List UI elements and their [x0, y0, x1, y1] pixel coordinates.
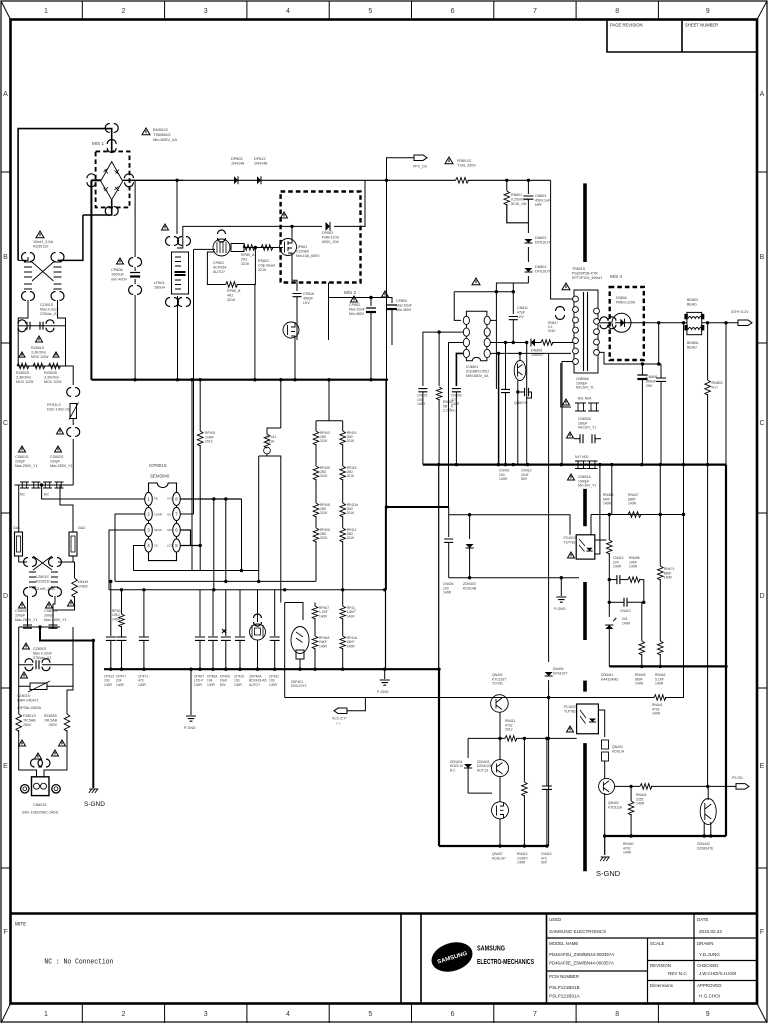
svg-text:DATE: DATE — [697, 917, 708, 922]
row tick lines left and right — [1, 172, 767, 868]
svg-text:PCM NUMBER: PCM NUMBER — [549, 974, 579, 979]
common-mode choke LZ801S — [33, 556, 52, 570]
labels RZ802S RZ803S — [19, 352, 25, 357]
cap bank rail caps left — [110, 582, 112, 636]
svg-text:M/S 1: M/S 1 — [92, 141, 104, 146]
svg-text:N01 N0A: N01 N0A — [578, 397, 592, 401]
svg-text:VCC: VCC — [167, 497, 173, 501]
vertical rails fb — [611, 465, 613, 515]
svg-text:E: E — [760, 763, 765, 770]
connector VCC_IC_P — [347, 698, 365, 711]
svg-text:6: 6 — [451, 1011, 455, 1018]
zener ZDP401 — [285, 603, 303, 621]
secondary snubber Y-caps cluster — [561, 363, 571, 407]
svg-text:ZDN403KDS14B: ZDN403KDS14B — [463, 582, 477, 590]
resistor RP402 — [120, 588, 123, 591]
transformer TR801S body — [574, 290, 598, 373]
svg-text:M/S 4: M/S 4 — [610, 274, 622, 279]
resistor RP411 — [280, 380, 282, 428]
svg-text:REVISION: REVISION — [650, 963, 671, 968]
thick primary negative rail from bridge — [90, 180, 92, 379]
primary gnd bus bottom thick — [104, 668, 439, 670]
svg-text:2: 2 — [122, 1011, 126, 1018]
svg-text:9: 9 — [706, 1011, 710, 1018]
svg-text:E: E — [3, 763, 8, 770]
thermistor RTH1LS — [70, 404, 77, 419]
wire gaps to choke — [19, 556, 27, 562]
IC ICP801S body — [149, 483, 177, 561]
svg-text:8: 8 — [615, 8, 619, 15]
wire pin5 to snubber rail — [490, 352, 571, 354]
svg-text:NC: NC — [44, 493, 49, 497]
samsung logo ellipse — [428, 937, 476, 976]
feedback box bottom wire — [449, 577, 579, 579]
bridge BD801S diamond with diodes — [101, 162, 123, 200]
wire choke bottom to divider box — [18, 300, 28, 326]
cap bank caps main — [199, 590, 201, 636]
output junction dots — [657, 321, 660, 324]
label ICN801 — [472, 278, 480, 285]
capacitor CN803 — [527, 179, 530, 182]
svg-text:CN413: CN413 — [620, 609, 631, 613]
main ground bus y464 thick — [423, 464, 726, 466]
thick wire to S-GND — [40, 627, 93, 641]
spark gap GA1 — [15, 532, 23, 556]
resistor RN802 NC — [705, 380, 711, 395]
divider chain left — [315, 421, 317, 431]
svg-text:3: 3 — [204, 1011, 208, 1018]
sense resistor RN801 — [505, 179, 508, 182]
diode DP812 — [257, 176, 261, 184]
AC inlet connector CN801S — [31, 759, 43, 767]
wire transformer low pin to caps — [600, 352, 662, 364]
polarity mark CP409 — [222, 629, 226, 633]
IC ICN801 pins left — [463, 316, 469, 324]
svg-text:Dimensions: Dimensions — [650, 983, 674, 988]
svg-text:D: D — [3, 593, 8, 600]
wire pfc node thick segment — [385, 380, 387, 507]
svg-text:PC401STLP781: PC401STLP781 — [564, 536, 577, 544]
wire ICN801 top rail — [454, 291, 496, 293]
svg-text:J.W.CHOI/S.H.KIM: J.W.CHOI/S.H.KIM — [699, 971, 736, 976]
bottom sgnd bus thick — [605, 835, 726, 837]
diode DN803 — [527, 223, 529, 233]
svg-text:CS: CS — [154, 544, 158, 548]
capacitor CN403 473 — [452, 389, 461, 392]
capacitor CN807b — [660, 364, 662, 378]
transistor QN801 driver — [514, 361, 526, 381]
wire transformer pin7 down — [562, 362, 574, 465]
diode DP802 — [234, 176, 238, 184]
svg-text:A: A — [3, 91, 8, 98]
svg-text:1: 1 — [44, 8, 48, 15]
bus corner down right — [725, 465, 727, 836]
capacitor CP810 — [27, 322, 30, 330]
svg-text:SAMSUNG: SAMSUNG — [477, 946, 505, 953]
arc transformer pin — [556, 307, 565, 320]
opto coupler PC401S — [576, 535, 595, 559]
boost inductor LF801 — [172, 252, 189, 294]
ferrite bead BD803 — [687, 312, 702, 334]
svg-text:DP8121N4148: DP8121N4148 — [254, 157, 267, 166]
diode-resistor pair QN404 — [602, 740, 609, 749]
svg-text:2: 2 — [122, 8, 126, 15]
svg-text:ELECTRO-MECHANICS: ELECTRO-MECHANICS — [477, 959, 534, 966]
resistor RP401 — [199, 380, 201, 431]
series cap resistor row — [608, 578, 611, 581]
crystal ZP40A — [257, 590, 259, 622]
wire outputs to secondary bus — [658, 323, 660, 364]
title block outline — [11, 912, 758, 915]
svg-text:VCC IC P: VCC IC P — [332, 717, 347, 721]
connector ATHY 5.2V — [738, 320, 752, 326]
vertical RN802 line lower — [707, 465, 709, 787]
svg-text:CN801S: CN801S — [33, 803, 47, 807]
svg-text:PC402STLP781: PC402STLP781 — [564, 705, 577, 713]
ground P-GND opto — [560, 578, 562, 596]
svg-text:NC: NC — [20, 493, 25, 497]
svg-text:B: B — [760, 254, 765, 261]
node arc bridge top — [105, 124, 118, 133]
svg-text:3: 3 — [204, 8, 208, 15]
svg-text:ATHY 5.2V: ATHY 5.2V — [731, 310, 749, 314]
vertical rails under bus — [191, 380, 193, 571]
svg-text:PD46AF0E_ZSM/BN44-00035?A: PD46AF0E_ZSM/BN44-00035?A — [549, 961, 614, 966]
svg-text:2010.02.22: 2010.02.22 — [699, 929, 722, 934]
svg-text:9: 9 — [706, 8, 710, 15]
svg-text:GA2: GA2 — [78, 526, 85, 530]
zener ZDN404 — [467, 738, 469, 758]
capacitor CN807 — [501, 389, 510, 392]
svg-text:PD46AF0U_ZSM/BN44-00035?A: PD46AF0U_ZSM/BN44-00035?A — [549, 952, 614, 957]
svg-text:USED: USED — [549, 917, 561, 922]
thick corner to bottom — [437, 668, 440, 671]
svg-text:6: 6 — [451, 8, 455, 15]
warning triangle bridge — [142, 128, 150, 135]
divider chain right — [342, 421, 344, 431]
resistor RN440 — [630, 786, 632, 801]
wire rp411 row — [267, 454, 281, 603]
resistor RS821 — [261, 245, 273, 251]
resistor RN411 — [468, 737, 505, 739]
current transformer CT801 — [194, 248, 216, 250]
labels CS803S CS804S — [19, 602, 26, 608]
secondary gnd bus lower thick — [609, 665, 726, 667]
transformer TR801S label — [562, 283, 570, 290]
capacitor CN404 — [444, 539, 453, 542]
wire qn402 collector row — [614, 785, 640, 787]
transistor QN405 — [468, 792, 492, 794]
svg-text:SENS: SENS — [154, 528, 162, 532]
svg-text:5: 5 — [368, 1011, 372, 1018]
TL431 ZDN411 — [608, 602, 610, 617]
svg-text:C: C — [759, 420, 764, 427]
svg-text:GND: GND — [167, 528, 173, 532]
labels CS801S CS802S — [19, 446, 26, 452]
wires ICP801S left pins — [115, 514, 145, 581]
feedback box wires — [448, 507, 450, 537]
resistor RZ801S — [17, 363, 29, 369]
svg-text:MODEL NAME: MODEL NAME — [549, 941, 578, 946]
electrolytic cap CP802 — [370, 298, 372, 307]
svg-text:F: F — [3, 929, 7, 936]
svg-text:REV N.C: REV N.C — [668, 971, 687, 976]
svg-text:4: 4 — [286, 8, 290, 15]
svg-text:CHECKED: CHECKED — [697, 963, 718, 968]
wire cp816 to bus — [296, 297, 298, 340]
svg-text:BD803BEAD: BD803BEAD — [687, 298, 698, 307]
Y-cap row 3 on bus — [578, 461, 584, 469]
resistor RN441 wire — [285, 697, 654, 699]
svg-text:ICP801S: ICP801S — [149, 463, 167, 468]
junction dot cap row — [40, 483, 43, 486]
wire transformer top pin — [551, 290, 573, 299]
inductor LF802 160uH — [73, 562, 75, 578]
resistor RN407 in fb wire — [628, 512, 641, 518]
svg-text:H.G.CHOI: H.G.CHOI — [699, 994, 720, 999]
svg-text:FB: FB — [154, 497, 158, 501]
isolation bar segments — [583, 183, 587, 262]
svg-text:8: 8 — [615, 1011, 619, 1018]
safety capacitor row CS801S — [15, 484, 74, 486]
label RZ801S — [36, 336, 43, 342]
svg-text:P-GND: P-GND — [377, 690, 389, 694]
svg-text:DP8021N4148: DP8021N4148 — [231, 157, 244, 166]
connector PFC_DC — [387, 158, 415, 181]
wire boost diode out — [334, 180, 365, 226]
svg-text:NC : No Connection: NC : No Connection — [44, 959, 113, 967]
transistor QN402 — [599, 778, 615, 794]
varistor VZ801S — [19, 665, 30, 687]
dual diode ZDN442 — [707, 786, 709, 800]
wire output to gnd corner — [724, 321, 727, 324]
svg-text:11mH_2.5A: 11mH_2.5A — [36, 587, 55, 591]
svg-text:S-GND: S-GND — [84, 801, 105, 808]
MOSFET QP801 — [280, 239, 297, 256]
diode DN80A in circle — [612, 313, 631, 332]
ground S-GND left — [89, 789, 99, 793]
svg-text:B: B — [3, 254, 8, 261]
svg-text:A: A — [760, 91, 765, 98]
wire thermistor down — [72, 419, 74, 426]
transformer primary winding bumps — [573, 296, 579, 302]
wire bridge right output — [123, 179, 183, 181]
capacitor CN808 horizontal — [516, 390, 519, 393]
svg-text:P-GND: P-GND — [554, 607, 566, 611]
main primary ground bus thick — [91, 379, 388, 381]
svg-text:? ?: ? ? — [336, 722, 341, 726]
capacitor CN410 — [545, 737, 548, 740]
boost inductor LF801 wires — [176, 180, 178, 234]
svg-text:QN80?A: QN80?A — [514, 401, 528, 405]
spark gap GA2 — [69, 532, 77, 556]
resistor RP801A — [243, 245, 255, 251]
resistor RN806 — [535, 342, 541, 344]
wire opto right pins — [595, 539, 607, 541]
svg-text:DRAWN: DRAWN — [697, 941, 713, 946]
svg-text:NOTE: NOTE — [15, 922, 26, 928]
Y-capacitor row CS803S CS804S — [19, 626, 60, 628]
capacitor CP816 — [293, 294, 302, 297]
wire AC top loop — [18, 129, 112, 261]
X-capacitor CZ801S — [23, 643, 30, 649]
ground P-GND cap bank — [190, 669, 192, 715]
fuse FR801S — [456, 178, 469, 184]
transistor QN401 — [491, 695, 509, 713]
wire qn401 emitter — [499, 712, 501, 738]
common-mode choke LZ802 top — [22, 253, 35, 262]
svg-text:N1? N02: N1? N02 — [575, 455, 588, 459]
wire AC to choke — [18, 257, 28, 260]
wire IC out to transformer — [490, 342, 527, 344]
mosfet QN406 — [492, 802, 509, 819]
wire zdp401 tap — [284, 603, 286, 698]
wire divider to thermistor — [66, 366, 74, 385]
wire CT primary down — [193, 249, 195, 514]
svg-text:1: 1 — [44, 1011, 48, 1018]
capacitor CX network box — [18, 326, 65, 366]
svg-text:4: 4 — [286, 1011, 290, 1018]
svg-text:SEM3040: SEM3040 — [150, 474, 170, 479]
electrolytic CN806 — [641, 364, 643, 375]
svg-text:D: D — [759, 593, 764, 600]
svg-text:M/S 2: M/S 2 — [344, 290, 356, 295]
page revision / sheet number box — [607, 21, 757, 52]
wire gate node to bus — [254, 285, 256, 380]
IC ICP801S pins — [145, 492, 153, 505]
svg-text:41PS8x 4903A: 41PS8x 4903A — [17, 706, 42, 710]
wires IC left pins — [439, 331, 463, 333]
resistor below RN406 — [607, 540, 613, 554]
svg-text:SCALE: SCALE — [650, 941, 664, 946]
svg-text:PAGE REVISION: PAGE REVISION — [610, 23, 643, 28]
opto secondary pins — [598, 710, 604, 737]
wire choke to Ycaps — [27, 596, 29, 627]
ground S-GND main — [604, 836, 606, 855]
transformer secondary winding bumps — [594, 308, 600, 314]
capacitor CP811 — [40, 322, 43, 330]
svg-text:SAMSUNG ELECTRONICS: SAMSUNG ELECTRONICS — [549, 929, 606, 934]
thick drop to bus — [498, 353, 500, 464]
svg-text:F: F — [760, 929, 764, 936]
junction dot y-caps — [38, 625, 41, 628]
bridge rectifier BD801S dashed box M/S 1 — [96, 151, 130, 207]
svg-text:PSLP121B01B: PSLP121B01B — [549, 985, 580, 990]
wire inductor bottom to bus — [177, 296, 179, 380]
svg-text:7: 7 — [533, 8, 537, 15]
bulk cap loop wires — [328, 283, 330, 298]
wires IC right side — [491, 292, 497, 321]
cap CP411 — [274, 590, 276, 636]
svg-text:COMP: COMP — [154, 513, 163, 517]
capacitor CN801 104 — [418, 389, 427, 392]
Y-cap row 2 — [567, 432, 574, 438]
svg-text:C: C — [3, 420, 8, 427]
wire fb top — [591, 514, 684, 516]
svg-text:APPROVED: APPROVED — [697, 983, 721, 988]
node arcs bridge left — [87, 174, 96, 187]
wire CT to gate resistors — [244, 247, 283, 249]
svg-text:PS ON: PS ON — [732, 776, 743, 780]
fuse FZ801S — [18, 686, 20, 714]
connector PS_ON — [736, 784, 749, 790]
wire bridge bottom — [83, 200, 112, 215]
lower horizontal wires — [134, 570, 259, 572]
vertical resistor RN4x1 — [658, 566, 664, 580]
wire secondary output — [600, 322, 610, 324]
wire diode chain to IC rail — [496, 283, 528, 290]
resistor pair RP41x — [342, 590, 344, 606]
wire right corner down — [550, 180, 552, 290]
wires ICP801S right pins — [180, 498, 241, 500]
resistor pair RP407 — [314, 603, 316, 607]
svg-text:5: 5 — [368, 8, 372, 15]
wire left rail down — [18, 485, 20, 532]
boost diode DP803 — [326, 222, 331, 231]
svg-text:DN8061N4937: DN8061N4937 — [531, 349, 544, 358]
resistor RN412 — [523, 738, 525, 782]
wire fuse right — [468, 179, 551, 181]
label choke 10mH — [36, 231, 44, 238]
strap from bus to pgnd corner — [438, 465, 440, 670]
column tick lines top and bottom — [82, 1, 658, 1023]
svg-text:P-GND: P-GND — [184, 726, 196, 730]
cap CN413 row — [608, 580, 610, 603]
svg-text:PSLP121B01A: PSLP121B01A — [549, 994, 581, 999]
wire bridge left to ground bus — [91, 179, 101, 181]
node arcs inductor bottom — [166, 298, 179, 307]
ground P-GND right — [385, 507, 387, 669]
electrolytic cap CP803 — [387, 305, 397, 309]
capacitor CN811 — [512, 292, 514, 314]
svg-text:PFC_DC: PFC_DC — [413, 165, 428, 169]
dashed box M/S 4 — [610, 287, 644, 360]
opto coupler PC402S — [577, 704, 599, 734]
svg-text:160uHLF802: 160uHLF802 — [78, 580, 89, 589]
svg-text:LZ801SRZ30110: LZ801SRZ30110 — [36, 575, 51, 584]
sense MOSFET QP802 — [283, 322, 299, 338]
diode DN804 — [527, 247, 529, 262]
wire cap row to IC pin1 — [42, 485, 145, 499]
resistor chain RN443 — [641, 602, 643, 641]
svg-text:LCD: LCD — [167, 544, 173, 548]
Y-cap row 1 — [578, 403, 584, 411]
svg-text:GA1: GA1 — [13, 526, 20, 530]
cap CP4x1 — [143, 590, 145, 637]
svg-text:S-GND: S-GND — [596, 869, 621, 878]
wire AC line to fuse — [183, 179, 456, 181]
wire mosfet drain — [291, 226, 293, 237]
svg-text:OUT: OUT — [167, 513, 173, 517]
zener ZDN403 — [469, 515, 471, 539]
resistor RZ802S — [33, 363, 45, 369]
node arcs inductor top — [166, 237, 179, 246]
snubber rail down — [548, 353, 550, 577]
svg-text:SAC-10&D/SAC-14DS: SAC-10&D/SAC-14DS — [22, 811, 59, 815]
IC ICN801 pins right — [484, 316, 490, 324]
divider chains top wire — [316, 420, 343, 422]
wire inductor to drain line — [177, 226, 322, 248]
wire pfc node down — [386, 180, 388, 226]
vertical rails mid — [213, 499, 215, 590]
svg-text:LF801160uH: LF801160uH — [154, 281, 165, 290]
IC ICN801 body — [466, 311, 487, 360]
resistor RZ805S — [67, 686, 73, 714]
wire mosfet source to cap — [292, 256, 297, 291]
svg-text:Y.D.JUNG: Y.D.JUNG — [699, 952, 720, 957]
diode DN404 line — [548, 578, 550, 662]
svg-text:SHEET NUMBER: SHEET NUMBER — [685, 23, 718, 28]
